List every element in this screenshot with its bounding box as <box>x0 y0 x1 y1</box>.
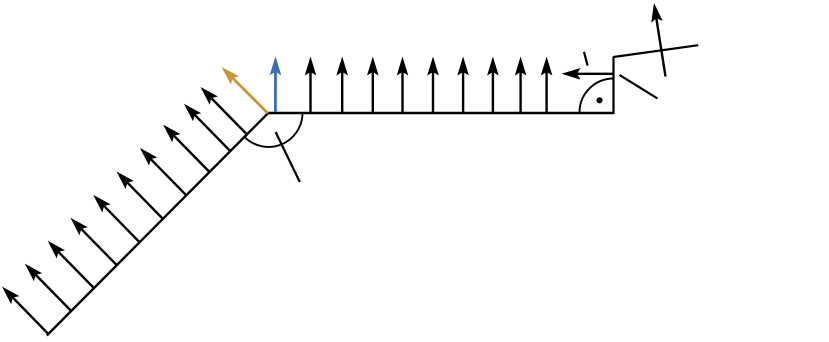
node horizontal load arrow 2 <box>336 57 348 113</box>
node horizontal load arrow 8 <box>515 57 527 113</box>
node incline load arrow 7 <box>140 148 186 195</box>
wire leader line at bend angle <box>276 132 300 182</box>
wire slanted leader line at right corner <box>620 75 658 99</box>
node right corner angle arc (90 deg) <box>580 79 614 113</box>
node incline load arrow 10 <box>201 87 247 134</box>
node horizontal load arrow 6 <box>457 57 469 113</box>
node bend angle arc (135 deg) <box>245 113 303 147</box>
wire small tick above left arrow <box>584 52 588 66</box>
node dot inside right angle arc <box>596 97 602 103</box>
node left-pointing arrow at right end <box>562 68 615 80</box>
node incline load arrow 6 <box>117 172 163 219</box>
node horizontal load arrow 5 <box>427 57 439 113</box>
node incline load arrow 4 <box>70 218 116 265</box>
node horizontal load arrow 1 <box>305 57 317 113</box>
wire beam: inclined segment and horizontal segment <box>47 113 614 336</box>
node incline load arrow 2 <box>25 264 71 311</box>
node incline load arrow 5 <box>93 195 139 242</box>
node incline load arrow 8 <box>163 125 209 172</box>
node blue vertical arrow <box>270 56 282 112</box>
wire right-end vertical step and slanted top line <box>614 45 699 114</box>
node orange arrow at bend <box>222 67 268 113</box>
node horizontal load arrow 7 <box>487 57 499 113</box>
node horizontal load arrow 9 <box>541 57 553 113</box>
node horizontal load arrow 4 <box>397 57 409 113</box>
node incline load arrow 1 <box>2 287 48 334</box>
node incline load arrow 3 <box>48 241 94 288</box>
node up arrow at top right <box>651 3 665 77</box>
node horizontal load arrow 3 <box>367 57 379 113</box>
node incline load arrow 9 <box>184 104 230 151</box>
